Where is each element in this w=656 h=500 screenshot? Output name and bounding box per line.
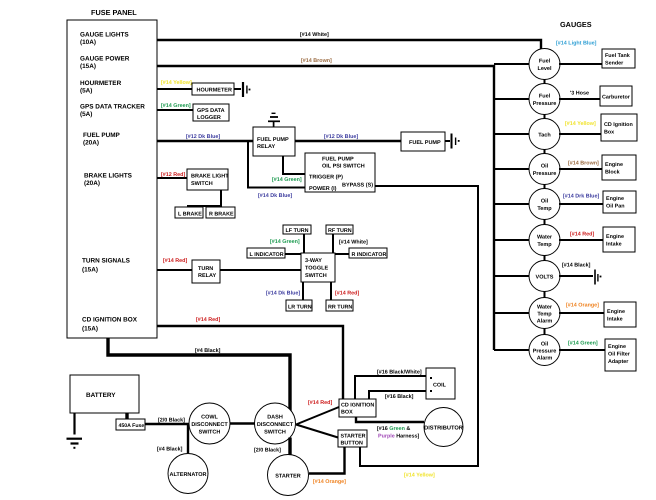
wire CD ignition #14 Red fuse to CD ignition box xyxy=(157,326,343,399)
gps data logger U3 xyxy=(193,104,229,121)
svg-text:(15A): (15A) xyxy=(82,267,98,274)
svg-text:Water: Water xyxy=(537,305,553,311)
svg-text:[#14 White]: [#14 White] xyxy=(300,32,329,38)
svg-text:R INDICATOR: R INDICATOR xyxy=(352,252,387,258)
svg-text:OIL PSI SWITCH: OIL PSI SWITCH xyxy=(322,164,365,170)
engine oil filter adapter E8 xyxy=(605,339,636,371)
wire dash to starter button diagonal xyxy=(296,425,338,438)
svg-text:Alarm: Alarm xyxy=(537,356,553,362)
wire fuel pressure hose to carburetor xyxy=(559,98,600,100)
wire bus stub to oil pressure xyxy=(494,168,545,170)
svg-text:[#14 Yellow]: [#14 Yellow] xyxy=(565,121,596,127)
wire starter button to starter #14 Orange xyxy=(309,447,345,474)
svg-text:[#14 Orange]: [#14 Orange] xyxy=(566,303,599,309)
svg-text:[#14 Green]: [#14 Green] xyxy=(272,177,302,183)
wire fuel level to sender #14 Light Blue xyxy=(559,63,602,65)
svg-text:[#14 Drk Blue]: [#14 Drk Blue] xyxy=(563,194,599,200)
wire water temp alarm to engine intake #14 Orange xyxy=(559,312,604,314)
svg-text:'3 Hose: '3 Hose xyxy=(570,91,589,97)
svg-text:[#16 Black]: [#16 Black] xyxy=(385,394,414,400)
svg-text:Engine: Engine xyxy=(606,196,624,202)
svg-text:CD Ignition: CD Ignition xyxy=(604,122,633,128)
wire fuel pump #12 Dk Blue fuse to relay xyxy=(157,140,253,142)
wire CD box to coil #16 Black xyxy=(369,391,426,399)
svg-text:RELAY: RELAY xyxy=(198,273,216,279)
svg-text:Fuel: Fuel xyxy=(539,59,551,65)
svg-text:GPS DATA: GPS DATA xyxy=(197,108,225,114)
svg-text:450A Fuse: 450A Fuse xyxy=(119,423,145,429)
svg-text:3-WAY: 3-WAY xyxy=(305,258,322,264)
wire junction to alternator #4 Black xyxy=(187,424,189,453)
svg-text:POWER (I): POWER (I) xyxy=(309,186,337,192)
svg-text:(20A): (20A) xyxy=(83,140,99,147)
svg-text:Water: Water xyxy=(537,235,553,241)
svg-text:[#16 Green &: [#16 Green & xyxy=(377,426,410,432)
svg-text:Oil Filter: Oil Filter xyxy=(608,352,631,358)
CD ignition box U4 xyxy=(339,399,376,417)
svg-text:Oil: Oil xyxy=(541,164,549,170)
svg-text:Sender: Sender xyxy=(605,61,624,67)
wire toggle to RR turn #14 Red xyxy=(330,282,332,300)
svg-text:[#14 Light Blue]: [#14 Light Blue] xyxy=(556,41,597,47)
gauge G5 oil temp xyxy=(529,189,560,220)
svg-text:RF TURN: RF TURN xyxy=(328,228,352,234)
svg-text:Fuel: Fuel xyxy=(539,94,551,100)
svg-text:VOLTS: VOLTS xyxy=(536,275,554,281)
3-way toggle switch S3 xyxy=(301,253,335,282)
turn relay K2 xyxy=(192,260,220,283)
svg-text:TURN SIGNALS: TURN SIGNALS xyxy=(82,258,131,265)
svg-text:Engine: Engine xyxy=(607,309,625,315)
gauges power bus vertical xyxy=(493,65,495,350)
wire L indicator to toggle xyxy=(285,253,301,255)
wire brake lights #12 Red fuse to switch xyxy=(157,177,187,179)
svg-text:(15A): (15A) xyxy=(80,63,96,70)
wire fuse panel ground #4 Black to dash disconnect xyxy=(108,338,290,412)
cowl disconnect switch S4 xyxy=(189,403,230,444)
svg-text:(5A): (5A) xyxy=(80,111,92,118)
svg-text:Oil Pan: Oil Pan xyxy=(606,204,625,210)
wire dash to starter 2/0 Black xyxy=(288,438,291,456)
wire cowl to dash switch xyxy=(230,422,255,424)
wire CD box to distributor #16 Green and Purple harness xyxy=(356,417,424,422)
engine oil pan E5 xyxy=(603,191,636,213)
wire oil pressure alarm to filter adapter #14 Green xyxy=(559,349,605,351)
svg-text:CD IGNITION BOX: CD IGNITION BOX xyxy=(82,317,138,324)
wire water temp to engine intake #14 Red xyxy=(559,239,603,241)
svg-text:[#4 Black]: [#4 Black] xyxy=(157,447,183,453)
engine intake E6 xyxy=(603,227,635,252)
svg-text:BRAKE LIGHT: BRAKE LIGHT xyxy=(191,174,229,180)
svg-text:Temp: Temp xyxy=(537,312,552,318)
svg-text:[#14 Brown]: [#14 Brown] xyxy=(301,58,332,64)
gauge G6 water temp xyxy=(529,225,560,256)
wire toggle to R indicator xyxy=(335,253,349,255)
R indicator lamp DS6 xyxy=(349,248,387,258)
svg-text:LF TURN: LF TURN xyxy=(286,228,309,234)
RF turn lamp DS4 xyxy=(326,225,353,234)
svg-text:FUEL PUMP: FUEL PUMP xyxy=(257,137,289,143)
wire gauge lights daisy chain xyxy=(544,49,546,350)
battery symbol B4 (volts) xyxy=(595,270,601,285)
wire toggle to LR turn #14 Dk Blue xyxy=(302,282,304,300)
svg-text:Block: Block xyxy=(605,170,620,176)
engine block E4 xyxy=(602,155,636,180)
svg-text:(5A): (5A) xyxy=(80,88,92,95)
wire turn signals #14 Red fuse to turn relay xyxy=(157,269,192,271)
svg-text:Oil: Oil xyxy=(541,199,549,205)
svg-text:(10A): (10A) xyxy=(80,39,96,46)
svg-text:COWL: COWL xyxy=(201,415,218,421)
wire bus stub to oil temp xyxy=(494,203,545,205)
wire bus stub to tach xyxy=(494,133,545,135)
svg-text:Engine: Engine xyxy=(605,162,623,168)
svg-text:[#14 Green]: [#14 Green] xyxy=(568,341,598,347)
svg-text:SWITCH: SWITCH xyxy=(305,273,327,279)
svg-text:[#14 Brown]: [#14 Brown] xyxy=(568,161,599,167)
wire bypass (S) #14 Yellow to starter button xyxy=(360,186,478,466)
svg-text:(15A): (15A) xyxy=(82,326,98,333)
wire gauge-lights #14 White from fuse panel to Fuel Level gauge xyxy=(157,40,541,52)
L brake lamp DS1 xyxy=(175,207,203,218)
wire gps data logger feed xyxy=(157,109,193,111)
svg-text:FUEL PUMP: FUEL PUMP xyxy=(322,157,354,163)
svg-text:STARTER: STARTER xyxy=(341,434,366,440)
svg-text:HOURMETER: HOURMETER xyxy=(197,88,232,94)
svg-text:DISTRIBUTOR: DISTRIBUTOR xyxy=(424,426,463,432)
wire RF turn to toggle #14 White xyxy=(332,234,334,253)
svg-text:TURN: TURN xyxy=(198,266,213,272)
svg-text:LR TURN: LR TURN xyxy=(288,305,312,311)
svg-text:Adapter: Adapter xyxy=(608,359,629,365)
wire relay trigger #14 Green to psi switch xyxy=(283,156,305,174)
wire CD box to coil #16 Black/White xyxy=(355,376,426,399)
svg-text:Engine: Engine xyxy=(606,234,624,240)
svg-text:TRIGGER (P): TRIGGER (P) xyxy=(309,175,343,181)
wire bus stub to water temp alarm xyxy=(494,312,545,314)
alternator M2 xyxy=(168,454,208,494)
svg-text:Oil: Oil xyxy=(541,342,549,348)
wire oil temp to engine oil pan #14 Drk Blue xyxy=(559,203,603,205)
svg-text:[#14 Yellow]: [#14 Yellow] xyxy=(161,80,192,86)
wire volts to battery symbol #14 Black xyxy=(559,275,593,277)
svg-text:HOURMETER: HOURMETER xyxy=(80,80,122,87)
svg-text:FUEL PUMP: FUEL PUMP xyxy=(83,132,121,139)
hourmeter U2 xyxy=(192,83,234,95)
gauge G7 volts xyxy=(529,261,560,292)
L indicator lamp DS5 xyxy=(247,248,285,258)
gauge G1 fuel level xyxy=(529,49,560,80)
coil T1 xyxy=(426,368,455,399)
svg-text:Level: Level xyxy=(537,66,552,72)
svg-text:Temp: Temp xyxy=(537,206,552,212)
RR turn lamp DS8 xyxy=(326,300,353,311)
carburetor E2 xyxy=(600,86,632,106)
wire bus stub to fuel level xyxy=(494,63,545,65)
svg-text:Temp: Temp xyxy=(537,242,552,248)
svg-text:Tach: Tach xyxy=(538,133,551,139)
wire tach to CD ignition box #14 Yellow xyxy=(559,133,601,135)
gauge G3 tach xyxy=(529,119,560,150)
CD ignition box sender E3 xyxy=(601,114,637,141)
svg-text:[#12 Dk Blue]: [#12 Dk Blue] xyxy=(186,134,220,140)
svg-text:(20A): (20A) xyxy=(84,180,100,187)
wire oil pressure to engine block #14 Brown xyxy=(559,168,602,170)
wire stub to R brake xyxy=(220,206,222,207)
svg-text:GAUGE LIGHTS: GAUGE LIGHTS xyxy=(80,32,129,39)
svg-text:[#14 Yellow]: [#14 Yellow] xyxy=(404,473,435,479)
brake light switch S2 xyxy=(187,169,229,190)
svg-text:[#14 Dk Blue]: [#14 Dk Blue] xyxy=(258,193,292,199)
wire battery to 450A fuse xyxy=(125,413,128,419)
battery symbol B3 (fuel pump return) xyxy=(452,134,460,149)
gauge G4 oil pressure xyxy=(529,154,560,185)
svg-text:[#4 Black]: [#4 Black] xyxy=(195,348,221,354)
svg-text:L INDICATOR: L INDICATOR xyxy=(250,252,284,258)
svg-text:[#14 Green]: [#14 Green] xyxy=(270,239,300,245)
svg-text:LOGGER: LOGGER xyxy=(197,115,221,121)
svg-text:SWITCH: SWITCH xyxy=(264,430,286,436)
wire bus stub to volts xyxy=(494,275,545,277)
svg-text:DISCONNECT: DISCONNECT xyxy=(191,422,228,428)
wire hourmeter to battery symbol xyxy=(234,88,241,90)
ground GND1 above fuel pump relay xyxy=(268,113,280,127)
svg-text:BYPASS (S): BYPASS (S) xyxy=(342,183,373,189)
battery BT1 xyxy=(70,375,139,413)
svg-text:CD IGNITION: CD IGNITION xyxy=(341,403,374,409)
svg-text:Engine: Engine xyxy=(608,344,626,350)
svg-text:ALTERNATOR: ALTERNATOR xyxy=(170,472,207,478)
wire bus stub to fuel pressure xyxy=(494,98,545,100)
svg-text:SWITCH: SWITCH xyxy=(199,430,221,436)
wire hourmeter feed xyxy=(157,88,192,90)
svg-text:[#14 Dk Blue]: [#14 Dk Blue] xyxy=(266,291,300,297)
svg-text:RELAY: RELAY xyxy=(257,144,275,150)
svg-text:FUEL PUMP: FUEL PUMP xyxy=(409,140,441,146)
svg-text:[#14 Green]: [#14 Green] xyxy=(161,103,191,109)
wire fuel pump to battery symbol xyxy=(445,140,450,142)
svg-text:Box: Box xyxy=(604,130,614,136)
svg-text:[#14 Black]: [#14 Black] xyxy=(562,263,591,269)
starter button S6 xyxy=(338,430,367,447)
svg-text:Purple Harness]: Purple Harness] xyxy=(378,434,420,440)
fuse F1 450A xyxy=(116,419,145,430)
gauge G8 water temp alarm xyxy=(529,298,560,329)
wire bus stub to oil pressure alarm xyxy=(494,349,545,351)
svg-text:BRAKE LIGHTS: BRAKE LIGHTS xyxy=(84,173,133,180)
starter M3 xyxy=(268,455,309,496)
svg-text:Intake: Intake xyxy=(607,317,623,323)
battery symbol B2 (hourmeter return) xyxy=(243,82,250,97)
svg-text:DASH: DASH xyxy=(267,415,283,421)
fuse panel FP1 xyxy=(67,8,157,338)
wire turn relay to toggle switch xyxy=(220,269,301,271)
svg-text:[#16 Black/White]: [#16 Black/White] xyxy=(377,370,422,376)
fuel pump oil psi switch S1 xyxy=(305,153,375,192)
svg-text:GPS DATA TRACKER: GPS DATA TRACKER xyxy=(80,104,145,111)
distributor U5 xyxy=(424,408,463,447)
svg-text:[#12 Dk Blue]: [#12 Dk Blue] xyxy=(324,134,358,140)
wire brake switch to brake lights xyxy=(188,190,221,207)
wire power #14 Dk Blue branch to psi switch xyxy=(248,142,305,188)
svg-text:Pressure: Pressure xyxy=(533,349,557,355)
engine intake E7 xyxy=(604,302,636,327)
wire bus stub to water temp xyxy=(494,239,545,241)
svg-text:GAUGE POWER: GAUGE POWER xyxy=(80,56,130,63)
fuel tank sender E1 xyxy=(602,49,635,68)
wire dash to CD ignition box #14 Red diagonal xyxy=(296,407,339,425)
svg-text:GAUGES: GAUGES xyxy=(560,20,592,29)
ground GND2 battery xyxy=(67,413,83,449)
svg-text:[#14 White]: [#14 White] xyxy=(339,240,368,246)
fuel pump M1 xyxy=(401,132,445,151)
wire LF turn to toggle #14 Green xyxy=(303,234,305,253)
svg-text:Carburetor: Carburetor xyxy=(602,95,631,101)
svg-text:RR TURN: RR TURN xyxy=(328,305,352,311)
svg-text:[2/0 Black]: [2/0 Black] xyxy=(158,418,185,424)
svg-text:DISCONNECT: DISCONNECT xyxy=(257,422,294,428)
svg-text:[#14 Red]: [#14 Red] xyxy=(163,258,187,264)
gauge G2 fuel pressure xyxy=(529,84,560,115)
LR turn lamp DS7 xyxy=(286,300,312,311)
wire relay to fuel pump #12 Dk Blue xyxy=(295,140,401,142)
svg-text:[#14 Red]: [#14 Red] xyxy=(196,317,220,323)
svg-text:BATTERY: BATTERY xyxy=(86,392,116,399)
R brake lamp DS2 xyxy=(206,207,235,218)
svg-text:Pressure: Pressure xyxy=(533,171,557,177)
svg-text:BUTTON: BUTTON xyxy=(341,441,363,447)
svg-text:SWITCH: SWITCH xyxy=(191,181,213,187)
svg-text:[#14 Red]: [#14 Red] xyxy=(335,291,359,297)
svg-text:Pressure: Pressure xyxy=(533,101,557,107)
LF turn lamp DS3 xyxy=(283,225,311,234)
gauge G9 oil pressure alarm xyxy=(529,335,560,366)
dash disconnect switch S5 xyxy=(255,403,296,444)
svg-text:[#12 Red]: [#12 Red] xyxy=(161,172,185,178)
svg-text:Intake: Intake xyxy=(606,242,622,248)
svg-text:R BRAKE: R BRAKE xyxy=(209,212,234,218)
svg-text:Alarm: Alarm xyxy=(537,319,553,325)
svg-text:[#14 Orange]: [#14 Orange] xyxy=(313,479,346,485)
svg-text:TOGGLE: TOGGLE xyxy=(305,266,328,272)
svg-text:STARTER: STARTER xyxy=(275,474,301,480)
svg-text:BOX: BOX xyxy=(341,410,353,416)
svg-text:[#14 Red]: [#14 Red] xyxy=(570,232,594,238)
fuel pump relay K1 xyxy=(253,127,295,156)
wire gauge-power #14 Brown feeding gauges bus xyxy=(157,65,494,67)
svg-text:COIL: COIL xyxy=(433,383,447,389)
svg-text:FUSE PANEL: FUSE PANEL xyxy=(91,8,137,17)
svg-text:L BRAKE: L BRAKE xyxy=(178,212,202,218)
svg-text:[2/0 Black]: [2/0 Black] xyxy=(254,448,281,454)
svg-text:Fuel Tank: Fuel Tank xyxy=(605,53,630,59)
svg-text:[#14 Red]: [#14 Red] xyxy=(308,400,332,406)
wire 450A fuse to cowl switch 2/0 Black xyxy=(145,423,189,425)
